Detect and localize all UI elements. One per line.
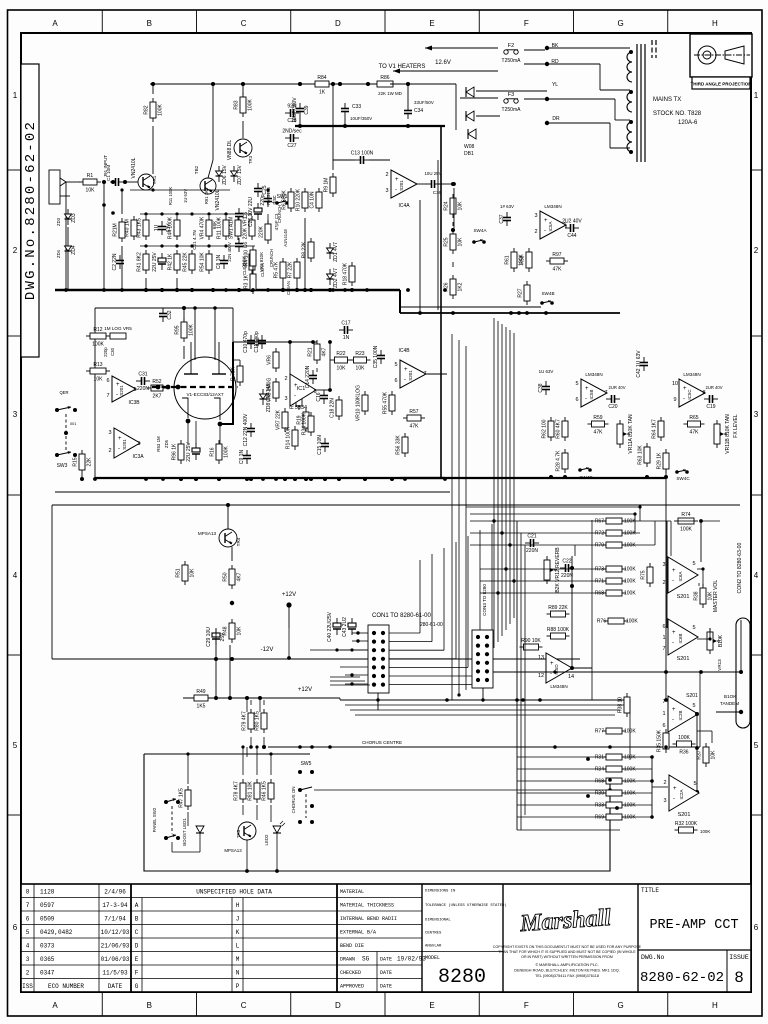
wire CON2 stub [740, 620, 742, 672]
junction [217, 477, 221, 481]
svg-text:ZD3: ZD3 [71, 213, 77, 223]
wire mid ground bus [95, 477, 445, 479]
wire feed [517, 756, 606, 758]
junction [615, 806, 619, 810]
svg-text:R30: R30 [595, 791, 604, 797]
svg-text:0509: 0509 [40, 916, 55, 923]
resistor R47 [179, 786, 192, 810]
svg-text:G: G [617, 19, 623, 28]
op-amp IC6B [662, 619, 698, 662]
svg-text:COPYRIGHT EXISTS ON THIS DOCUM: COPYRIGHT EXISTS ON THIS DOCUMENT-IT MUS… [493, 945, 642, 949]
svg-text:+: + [673, 786, 677, 792]
wire fx ground bus [400, 477, 666, 479]
wire [183, 346, 185, 359]
wire [103, 182, 105, 290]
svg-text:C: C [241, 1001, 247, 1010]
svg-text:100K: 100K [624, 591, 636, 597]
svg-text:C8 1N: C8 1N [216, 255, 222, 270]
wire CON1 feed vertical [419, 560, 421, 633]
svg-text:220N: 220N [561, 573, 573, 579]
node [111, 211, 115, 215]
capacitor C32 [159, 308, 173, 322]
svg-text:D: D [335, 1001, 341, 1010]
node [451, 228, 455, 232]
wire chorus to rail [699, 672, 701, 747]
svg-text:PRE-AMP CCT: PRE-AMP CCT [649, 918, 738, 933]
wire [187, 754, 189, 784]
node [245, 869, 249, 873]
grid divider [573, 10, 575, 33]
node [699, 519, 703, 523]
wire [547, 98, 615, 100]
junction [363, 477, 367, 481]
resistor R6 [282, 188, 295, 212]
svg-text:C: C [241, 19, 247, 28]
resistor R21 [308, 340, 328, 364]
material block row line [337, 910, 422, 912]
svg-text:R34: R34 [595, 767, 604, 773]
capacitor C36 [426, 180, 440, 188]
junction [323, 477, 327, 481]
svg-text:3: 3 [662, 562, 665, 568]
hole table row line [131, 897, 337, 899]
capacitor C13 [351, 151, 374, 165]
wire IC5D out [572, 667, 592, 669]
op-amp IC5C [672, 379, 706, 407]
svg-text:UNSPECIFIED HOLE DATA: UNSPECIFIED HOLE DATA [196, 889, 272, 896]
node [217, 477, 221, 481]
svg-text:6: 6 [662, 624, 665, 630]
wire [267, 190, 269, 193]
capacitor C22 [560, 559, 574, 580]
svg-text:10K: 10K [356, 366, 366, 372]
capacitor C24 [154, 221, 172, 235]
svg-text:A: A [135, 902, 139, 909]
op-amp IC2B [662, 696, 698, 732]
svg-text:0347: 0347 [40, 970, 55, 977]
hole table column line [242, 898, 244, 993]
wire [270, 805, 272, 822]
junction [331, 288, 335, 292]
wire CON1 feed [389, 666, 468, 668]
wire [246, 747, 248, 757]
svg-text:J: J [236, 916, 240, 923]
grid divider [751, 654, 762, 656]
svg-text:BOOST LED1: BOOST LED1 [182, 818, 187, 846]
wire feed [622, 804, 652, 806]
svg-text:-: - [404, 377, 406, 383]
resistor R20 [290, 386, 303, 410]
node [695, 712, 699, 716]
svg-text:13: 13 [538, 655, 544, 661]
svg-text:ECO NUMBER: ECO NUMBER [48, 983, 84, 990]
node [390, 477, 394, 481]
wire IC4A feedback [419, 200, 421, 313]
switch SW4A [472, 239, 486, 244]
wire [697, 730, 712, 732]
svg-text:LED2: LED2 [264, 834, 269, 846]
svg-text:R36: R36 [679, 750, 688, 756]
svg-text:CENTRES: CENTRES [425, 932, 442, 936]
wire corner rail [330, 680, 365, 682]
svg-text:2: 2 [534, 229, 537, 235]
svg-text:C9 1N: C9 1N [239, 450, 245, 465]
svg-text:R11 100K: R11 100K [217, 216, 223, 239]
capacitor C28 [285, 104, 299, 125]
node [418, 311, 422, 315]
op-amp IC5A [534, 211, 566, 239]
junction rail [445, 698, 449, 702]
revision row 7 [26, 902, 128, 909]
resistor R19 [297, 408, 310, 432]
node [517, 311, 521, 315]
revision table row line [21, 910, 131, 912]
svg-text:MAINS TX: MAINS TX [653, 97, 681, 103]
svg-text:17-3-94: 17-3-94 [102, 902, 128, 909]
svg-text:S201: S201 [119, 385, 124, 396]
svg-text:EXTERNAL B/A: EXTERNAL B/A [340, 930, 376, 936]
svg-text:CLEAN: CLEAN [286, 281, 291, 295]
junction [337, 477, 341, 481]
diode ZD4 [65, 241, 78, 257]
resistor R27 [518, 281, 531, 305]
svg-text:22U 25V: 22U 25V [186, 442, 192, 462]
svg-text:R51: R51 [176, 568, 182, 577]
wire cluster rail [140, 213, 252, 215]
node [708, 637, 711, 640]
svg-text:C29 10U: C29 10U [206, 627, 212, 647]
wire feed [517, 804, 606, 806]
svg-text:R35 150K: R35 150K [657, 729, 663, 752]
node [120, 188, 123, 191]
node [245, 477, 249, 481]
svg-text:ZD4: ZD4 [71, 245, 77, 255]
resistor VR1 [243, 216, 256, 240]
svg-text:R70: R70 [595, 543, 604, 549]
svg-text:1K5: 1K5 [197, 704, 206, 710]
node [250, 288, 254, 292]
wire [172, 851, 200, 853]
node [356, 639, 359, 642]
svg-text:E: E [135, 956, 139, 963]
resistor R82 [144, 98, 164, 122]
svg-text:MATERIAL THICKNESS: MATERIAL THICKNESS [340, 903, 394, 909]
wire [698, 583, 700, 586]
junction [298, 82, 302, 86]
resistor R97 [546, 252, 568, 273]
junction [211, 288, 215, 292]
junction chorus [328, 745, 332, 749]
wire [124, 181, 138, 183]
junction [309, 288, 313, 292]
svg-text:B1OK: B1OK [724, 694, 737, 699]
grid divider [8, 335, 22, 337]
grid divider [478, 992, 480, 1016]
wire CON1 feed vertical [431, 554, 433, 642]
wire long vertical [591, 520, 593, 700]
svg-text:1K: 1K [319, 90, 326, 96]
marshall block line [502, 884, 504, 992]
wire [476, 90, 547, 92]
resistor R63 [638, 443, 651, 467]
wire bottom rail 3 [350, 709, 620, 711]
svg-text:R1: R1 [87, 173, 94, 179]
svg-text:10UF/350V: 10UF/350V [350, 116, 372, 121]
wire [610, 147, 630, 149]
svg-text:VR8 1M0G: VR8 1M0G [267, 378, 273, 403]
svg-text:47K: 47K [410, 424, 420, 430]
resistor R81 [248, 779, 261, 803]
connector CON1 pin [372, 683, 376, 687]
wire IC5D feedback [571, 556, 573, 668]
svg-text:R7 22K: R7 22K [288, 261, 294, 278]
svg-text:F: F [135, 970, 139, 977]
wire supply bus [295, 125, 445, 127]
resistor R40 [125, 216, 138, 240]
wire [215, 645, 217, 698]
resistor R65 [684, 415, 705, 436]
node [262, 745, 266, 749]
svg-text:22K 1W MD: 22K 1W MD [378, 91, 402, 96]
node [309, 477, 313, 481]
connector J91 input jack [49, 170, 70, 204]
svg-text:R80 1K5: R80 1K5 [255, 711, 261, 731]
wire [390, 83, 456, 85]
svg-text:C14 220N: C14 220N [305, 365, 311, 388]
wire [670, 521, 672, 556]
node [226, 503, 230, 507]
wire [51, 505, 53, 659]
wire [622, 544, 655, 546]
connector CON1 pin [372, 657, 376, 661]
junction [161, 477, 165, 481]
svg-text:100K: 100K [624, 779, 636, 785]
node [549, 475, 553, 479]
svg-text:22U 25V: 22U 25V [152, 252, 158, 272]
svg-text:220N: 220N [137, 386, 149, 392]
connector CON1 pin [381, 640, 385, 644]
resistor R25 [444, 230, 464, 254]
svg-text:C26 10V 22U: C26 10V 22U [248, 197, 254, 227]
wire [152, 84, 154, 94]
svg-text:1U: 1U [154, 224, 160, 231]
wire feed [622, 792, 652, 794]
svg-text:CHORUS ON: CHORUS ON [291, 787, 296, 814]
svg-text:T250mA: T250mA [502, 107, 522, 113]
node [207, 212, 210, 215]
capacitor C41 [186, 442, 200, 462]
hole table row line [131, 978, 337, 980]
svg-text:P: P [236, 983, 240, 990]
wire IC1 feedback [289, 342, 291, 374]
node [151, 82, 155, 86]
third angle projection symbol [690, 34, 752, 89]
wire [614, 99, 616, 120]
resistor VR7 [276, 408, 289, 432]
svg-text:R91 1K0: R91 1K0 [204, 187, 209, 204]
svg-text:B: B [147, 1001, 152, 1010]
diode ZD7 [231, 164, 244, 184]
op-amp IC4B [394, 360, 426, 388]
revision table row line [21, 978, 131, 980]
wire vertical [520, 533, 522, 830]
hole table row line [131, 964, 337, 966]
wire IC6A out [700, 521, 702, 562]
svg-text:R37: R37 [697, 750, 703, 759]
resistor R16 [210, 440, 230, 464]
resistor VR4 [200, 216, 213, 240]
wire [678, 520, 694, 522]
node [295, 288, 299, 292]
svg-text:-: - [673, 796, 675, 802]
node [570, 566, 574, 570]
svg-text:2: 2 [108, 448, 111, 454]
junction [266, 288, 270, 292]
wire [242, 84, 244, 95]
wire feed [470, 513, 635, 515]
wire [455, 84, 457, 130]
wire rail 672 [493, 671, 741, 673]
capacitor C14 [305, 365, 317, 388]
capacitor C16 [316, 390, 328, 404]
svg-text:F3: F3 [508, 92, 514, 98]
svg-text:IC6A: IC6A [678, 571, 683, 581]
signature row CHECKED [340, 970, 392, 976]
svg-text:R71: R71 [595, 579, 604, 585]
wire [121, 190, 123, 214]
svg-text:C39: C39 [304, 105, 310, 114]
node [241, 745, 244, 748]
svg-text:R31: R31 [595, 755, 604, 761]
svg-text:3: 3 [534, 213, 537, 219]
revision row 3 [26, 956, 130, 963]
capacitor C6 [235, 238, 249, 252]
svg-text:B10K: B10K [718, 634, 724, 647]
svg-text:R81 10K: R81 10K [248, 781, 254, 801]
svg-text:R69: R69 [595, 815, 604, 821]
svg-text:R49: R49 [196, 689, 205, 695]
svg-text:T250mA: T250mA [502, 58, 522, 64]
wire vertical [465, 346, 467, 690]
svg-text:R12: R12 [93, 327, 102, 333]
wire [615, 119, 630, 121]
wire [460, 97, 498, 99]
resistor R13 [86, 362, 110, 383]
capacitor C26 [248, 197, 262, 227]
op-amp IC3A [108, 428, 140, 458]
svg-text:STOCK NO. T828: STOCK NO. T828 [653, 111, 702, 117]
junction [406, 82, 410, 86]
svg-text:R54 10K: R54 10K [200, 252, 206, 272]
wire [316, 389, 330, 391]
svg-text:C34: C34 [414, 108, 423, 114]
resistor R77 [595, 728, 637, 735]
svg-text:ISSUE: ISSUE [729, 954, 749, 961]
svg-text:R58: R58 [520, 255, 526, 264]
node [102, 203, 106, 207]
node [664, 698, 668, 702]
potentiometer VR12 [544, 547, 561, 593]
wire [67, 227, 69, 241]
svg-text:N: N [236, 970, 240, 977]
connector CON1 pin [381, 648, 385, 652]
resistor R49 [190, 689, 212, 710]
svg-text:F: F [524, 19, 529, 28]
node [224, 244, 227, 247]
resistor R54 [200, 250, 213, 274]
resistor R86 [373, 75, 397, 87]
transistor TR4 [219, 529, 237, 547]
wire [94, 308, 96, 479]
node [230, 657, 234, 661]
wire tube cathode [195, 421, 197, 444]
svg-text:TITLE: TITLE [641, 887, 659, 894]
svg-text:100K: 100K [624, 791, 636, 797]
svg-text:R14 100K: R14 100K [286, 426, 292, 449]
svg-text:1: 1 [662, 635, 665, 641]
wire [66, 181, 80, 183]
fuse F3 [502, 92, 522, 113]
junction [179, 477, 183, 481]
svg-text:S201: S201 [122, 439, 127, 450]
wire chorus centre [268, 746, 700, 748]
resistor R51b [259, 220, 272, 244]
transistor TR3 [227, 139, 252, 160]
material block row line [337, 964, 422, 966]
svg-text:2: 2 [26, 970, 30, 977]
wire [344, 117, 346, 126]
wire [256, 747, 258, 775]
svg-text:R62 100: R62 100 [542, 419, 548, 438]
revision table row line [21, 951, 131, 953]
wire [332, 84, 334, 170]
svg-text:+: + [672, 630, 676, 636]
svg-text:R18 470K: R18 470K [343, 262, 349, 285]
wire [599, 64, 601, 90]
svg-text:5: 5 [26, 929, 30, 936]
junction [190, 288, 194, 292]
resistor R3 [244, 270, 257, 294]
node [287, 656, 291, 660]
capacitor C9 [239, 450, 251, 465]
wire cluster rail [140, 245, 255, 247]
node [328, 288, 332, 292]
node [298, 124, 302, 128]
svg-text:120A-6: 120A-6 [678, 120, 698, 126]
capacitor C34 [404, 105, 412, 119]
junction [492, 519, 495, 522]
wire supply vertical [440, 126, 442, 478]
svg-text:C43 2U2: C43 2U2 [342, 617, 348, 637]
wire [242, 747, 244, 775]
grid divider [8, 169, 22, 171]
svg-text:+12V: +12V [298, 687, 312, 693]
node [207, 244, 210, 247]
node [230, 601, 234, 605]
svg-text:-: - [672, 578, 674, 584]
capacitor C25 [254, 183, 268, 197]
svg-text:C32: C32 [167, 310, 173, 319]
junction [261, 477, 265, 481]
node [570, 584, 574, 588]
wire [697, 568, 703, 570]
junction [293, 477, 297, 481]
wire [665, 470, 667, 477]
wire [267, 214, 269, 224]
wire [640, 746, 660, 748]
svg-text:100K: 100K [624, 519, 636, 525]
switch SW5 [298, 761, 314, 824]
